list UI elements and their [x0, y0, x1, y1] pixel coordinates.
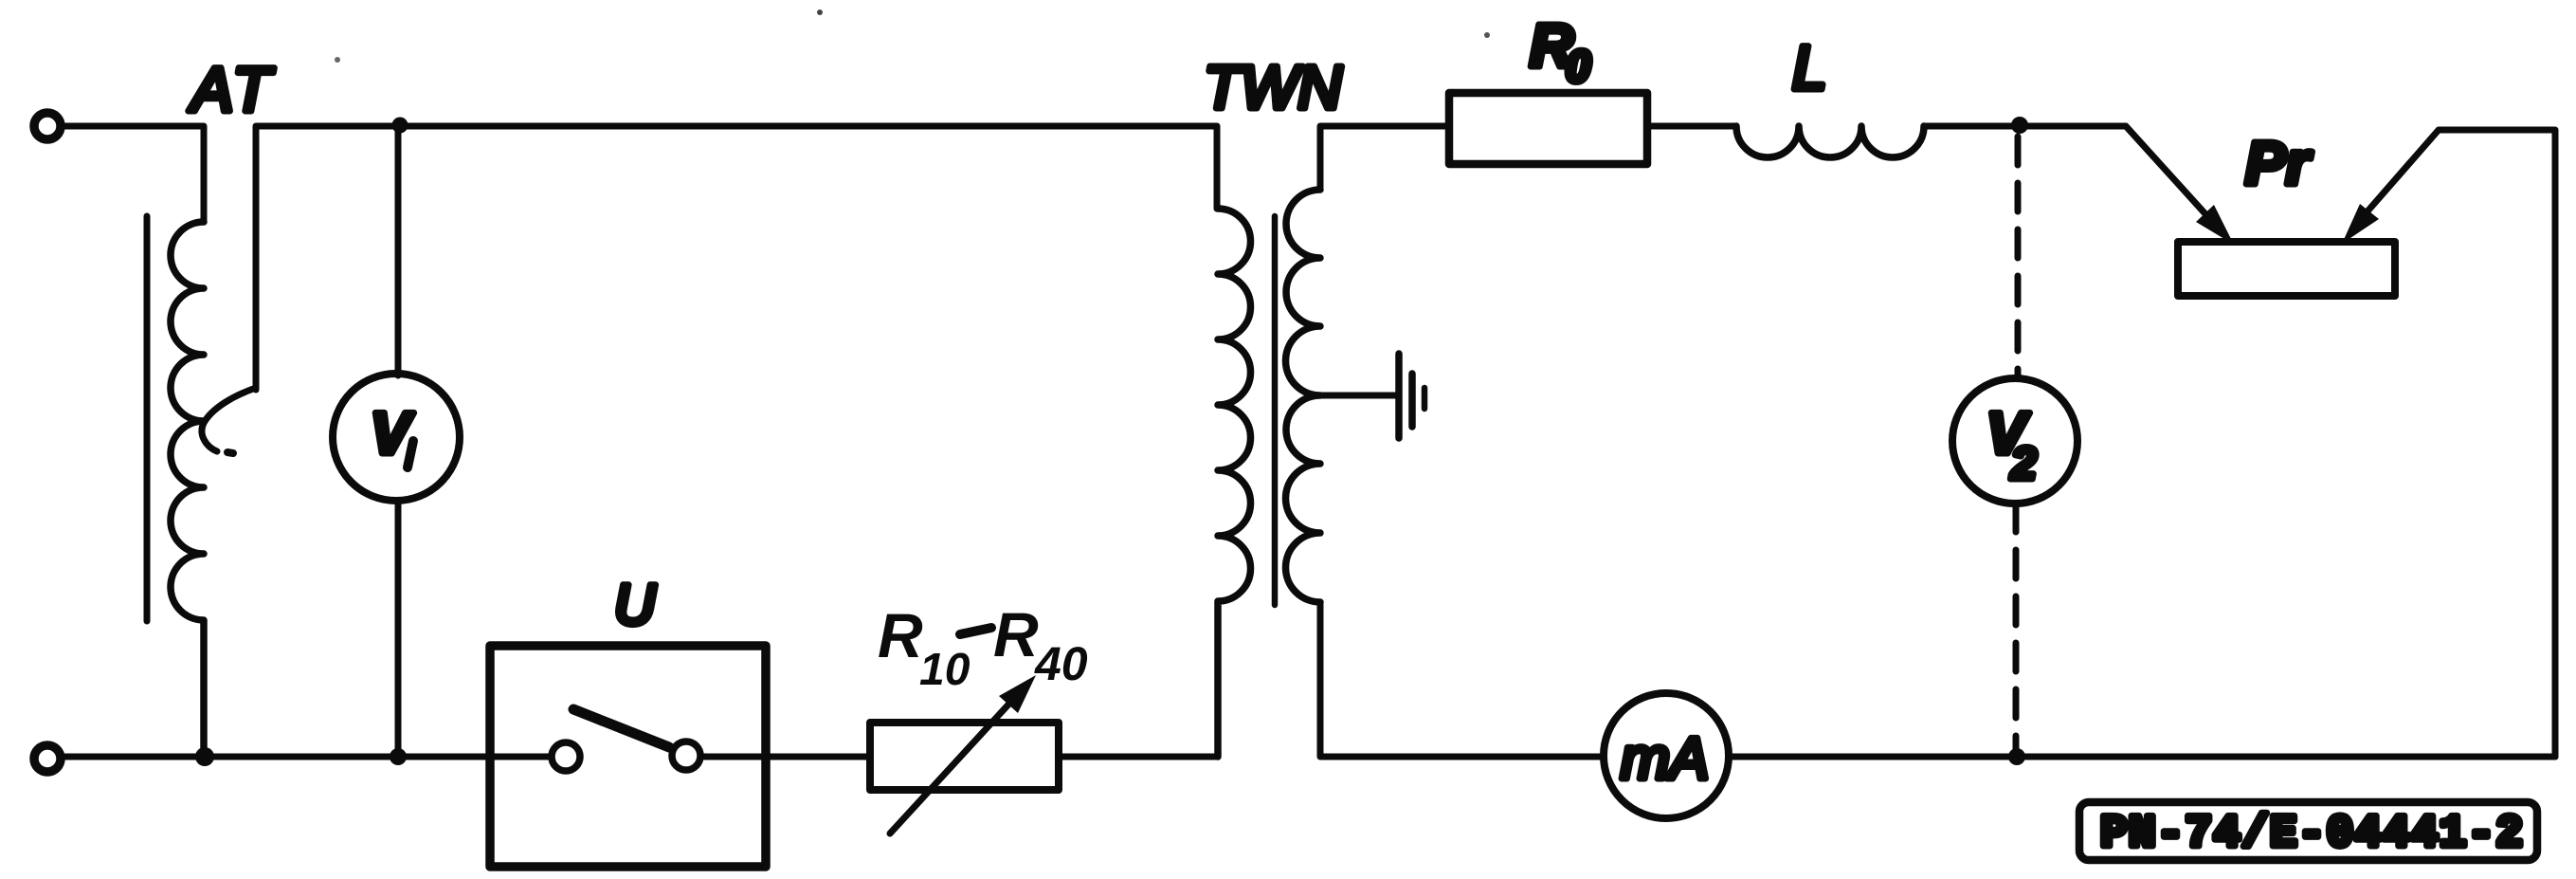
minus sign in R10-R40 label [960, 628, 991, 634]
TWN secondary winding [1286, 190, 1321, 602]
svg-text:PN-74/E-04441-2: PN-74/E-04441-2 [2100, 809, 2524, 860]
rheostat arrow head [999, 675, 1036, 713]
voltmeter V2 [1952, 378, 2077, 504]
node D (junction to V2 dashed lead) [2011, 117, 2028, 134]
Pr right electrode arrow head [2342, 204, 2379, 244]
wire from AT tap up and right to transformer TWN primary [256, 126, 1217, 390]
wire node A to voltmeter V1 [395, 126, 402, 375]
scan speck 3 [335, 57, 340, 63]
scan speck 2 [1484, 32, 1490, 38]
TWN core bar [1272, 216, 1279, 605]
switch right contact [672, 742, 700, 770]
rheostat R10-R40 body [870, 723, 1059, 790]
switch left contact [552, 742, 580, 771]
terminal J1 (top-left input) [34, 113, 61, 139]
autotransformer AT winding [171, 222, 204, 757]
wire TWN secondary top to R0 [1320, 126, 1449, 190]
scan speck 1 [817, 9, 823, 15]
wire TWN secondary bottom to mA meter [1320, 602, 1604, 757]
wire rheostat to TWN primary bottom [1059, 754, 1218, 760]
standard reference box PN-74/E-04441-2 [2079, 802, 2537, 860]
switch blade [573, 709, 669, 747]
ground symbol bar 3 [1422, 388, 1428, 409]
node B (bottom junction V1) [390, 748, 407, 765]
dashed lead node D to voltmeter V2 [2015, 137, 2022, 378]
wire from J1 to AT winding top [65, 126, 204, 222]
switch box U outline [490, 646, 766, 867]
svg-text:10: 10 [919, 645, 971, 695]
svg-text:0: 0 [1566, 41, 1590, 91]
svg-text:Pr: Pr [2245, 129, 2313, 197]
svg-text:R: R [878, 600, 923, 670]
AT tap arrow (wiper) [202, 388, 256, 451]
wire V1 to bottom rail [395, 501, 402, 757]
milliammeter mA [1604, 693, 1729, 818]
svg-text:L: L [1792, 32, 1827, 102]
ground symbol bar 1 [1395, 354, 1403, 438]
AT tap arrow tip tick [227, 452, 233, 453]
TWN primary winding [1218, 209, 1251, 757]
svg-text:40: 40 [1034, 637, 1088, 690]
rheostat adjustment arrow shaft [890, 705, 1008, 833]
wire switch right contact to rheostat R10-R40 [704, 754, 870, 760]
wire R0 to inductor L [1647, 123, 1736, 130]
autotransformer AT core bar [144, 216, 151, 621]
terminal J2 (bottom-left input) [34, 745, 61, 772]
voltmeter V1 [333, 374, 460, 501]
ground symbol bar 2 [1408, 374, 1416, 427]
svg-text:R: R [993, 599, 1039, 669]
wire inductor to node D [1924, 123, 2126, 130]
bottom wire mA to right corner [1729, 754, 2555, 760]
dashed lead V2 to bottom rail [2013, 504, 2020, 753]
node A (top junction to V1) [392, 118, 408, 134]
svg-text:U: U [614, 573, 656, 636]
node C (AT winding bottom junction) [195, 747, 214, 766]
bottom wire from J2 to switch U left contact [65, 754, 548, 760]
sample Pr body [2178, 242, 2395, 296]
svg-text:mA: mA [1621, 726, 1709, 792]
Pr left electrode arrow head [2196, 205, 2234, 245]
inductor L [1736, 126, 1924, 157]
label R10-R40 [878, 599, 1088, 695]
svg-text:2: 2 [2010, 439, 2037, 489]
svg-text:TWN: TWN [1204, 53, 1343, 121]
wire node D to Pr left electrode bend [2020, 126, 2208, 217]
wire secondary center tap to ground [1320, 393, 1397, 399]
resistor R0 body [1449, 93, 1647, 164]
wire right vertical and Pr right electrode [2367, 130, 2555, 757]
svg-text:AT: AT [188, 54, 275, 124]
node E (bottom junction of dashed lead) [2008, 748, 2025, 765]
